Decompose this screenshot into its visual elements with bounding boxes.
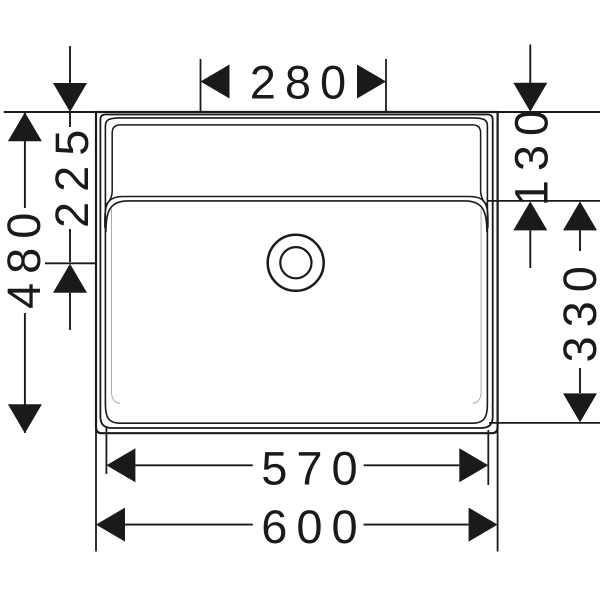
shelf inner line — [106, 125, 488, 205]
dim 225 arrow up — [53, 264, 87, 293]
dim 280 extension line left — [200, 59, 202, 111]
dim 225 line stub lower — [69, 229, 71, 262]
dim 480 arrow top — [8, 112, 42, 141]
svg-text:600: 600 — [261, 500, 366, 553]
dim 280 arrow right — [357, 65, 386, 99]
bowl inner wall faint line left — [112, 208, 121, 404]
dim 130 arrow up — [513, 201, 547, 230]
dim 570 arrow right — [459, 448, 488, 482]
dim 570 arrow left — [106, 448, 135, 482]
bowl upper edge line — [105, 197, 488, 229]
dim 570 extension line left — [105, 426, 107, 474]
dim 600 extension line right — [497, 425, 499, 552]
dim 330 line lower stub — [579, 368, 581, 393]
top edge / extension line — [4, 111, 600, 113]
dim 225 line below — [69, 293, 71, 330]
dim 130 extension line — [488, 200, 600, 202]
basin outer outline — [96, 112, 498, 433]
dim 130 arrow down — [513, 83, 547, 112]
dim 330 line upper stub — [579, 230, 581, 251]
dim 330 extension line — [489, 422, 600, 424]
svg-text:570: 570 — [261, 442, 366, 495]
dim 600 arrow left — [96, 508, 125, 542]
dim 280 arrow left — [201, 65, 230, 99]
dim 330 arrow down — [563, 393, 597, 422]
svg-text:225: 225 — [45, 120, 98, 228]
dim 570 extension line right — [487, 430, 489, 485]
drain inner circle — [280, 247, 311, 278]
dim 225 arrow down — [53, 83, 87, 112]
dim 600 arrow right — [469, 508, 498, 542]
dim 600 line right — [364, 524, 469, 526]
dim 225 line above — [69, 46, 71, 84]
svg-text:330: 330 — [553, 257, 600, 362]
dim 570 line left — [135, 464, 252, 466]
dim 480 line lower — [24, 313, 26, 433]
dim 130 line below — [529, 230, 531, 268]
dim 600 extension line left — [95, 428, 97, 552]
bowl lower edge line — [106, 201, 487, 232]
basin rim line — [100, 115, 492, 429]
svg-text:480: 480 — [0, 204, 50, 309]
drain outer circle — [268, 235, 324, 291]
dim 480 arrow bottom — [8, 404, 42, 433]
dim 330 arrow up — [563, 201, 597, 230]
dim 480 line upper — [24, 112, 26, 208]
bowl inner wall faint line right — [473, 208, 482, 404]
dim 570 line right — [364, 464, 460, 466]
dim 600 line left — [125, 524, 253, 526]
dim 130 line above — [529, 45, 531, 84]
svg-text:130: 130 — [504, 101, 557, 206]
dim 225 line stub upper — [69, 113, 71, 127]
dim 280 extension line right — [385, 59, 387, 111]
dim 225 tick — [45, 262, 96, 264]
svg-text:280: 280 — [250, 56, 355, 109]
inner depression outline — [105, 118, 487, 423]
